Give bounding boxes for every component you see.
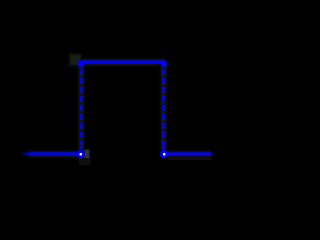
wire: last short dash above right circle <box>162 147 165 150</box>
jpeg block artifact left of top-left dot <box>69 53 82 67</box>
wire: last short dash above left circle <box>80 146 83 149</box>
faint haze below left circle <box>79 158 91 165</box>
halo artifact around top segment <box>80 58 165 67</box>
halo artifact around left baseline <box>28 150 78 159</box>
wire: right dashed vertical at x=1/2 <box>162 69 165 148</box>
node: open circle at (-1/2, 0) <box>78 152 83 157</box>
node: open circle at (1/2, 0) <box>162 152 167 157</box>
jpeg block artifact right of bottom-left circle <box>84 149 91 161</box>
halo artifact around right dashed vertical <box>159 64 167 151</box>
halo artifact around left dashed vertical <box>77 64 85 151</box>
wire: left baseline segment (y=0 level) <box>21 153 78 156</box>
node: filled dot at (-1/2, 1) <box>78 61 85 68</box>
faint haze below right baseline <box>168 157 212 161</box>
wire: left dashed vertical at x=-1/2 <box>80 69 83 145</box>
halo artifact around right baseline <box>166 150 212 159</box>
node: filled dot at (1/2, 1) <box>161 61 168 68</box>
wire: top segment (y=1 level) <box>81 61 163 64</box>
wire: right baseline segment (y=0 level) <box>167 153 214 156</box>
